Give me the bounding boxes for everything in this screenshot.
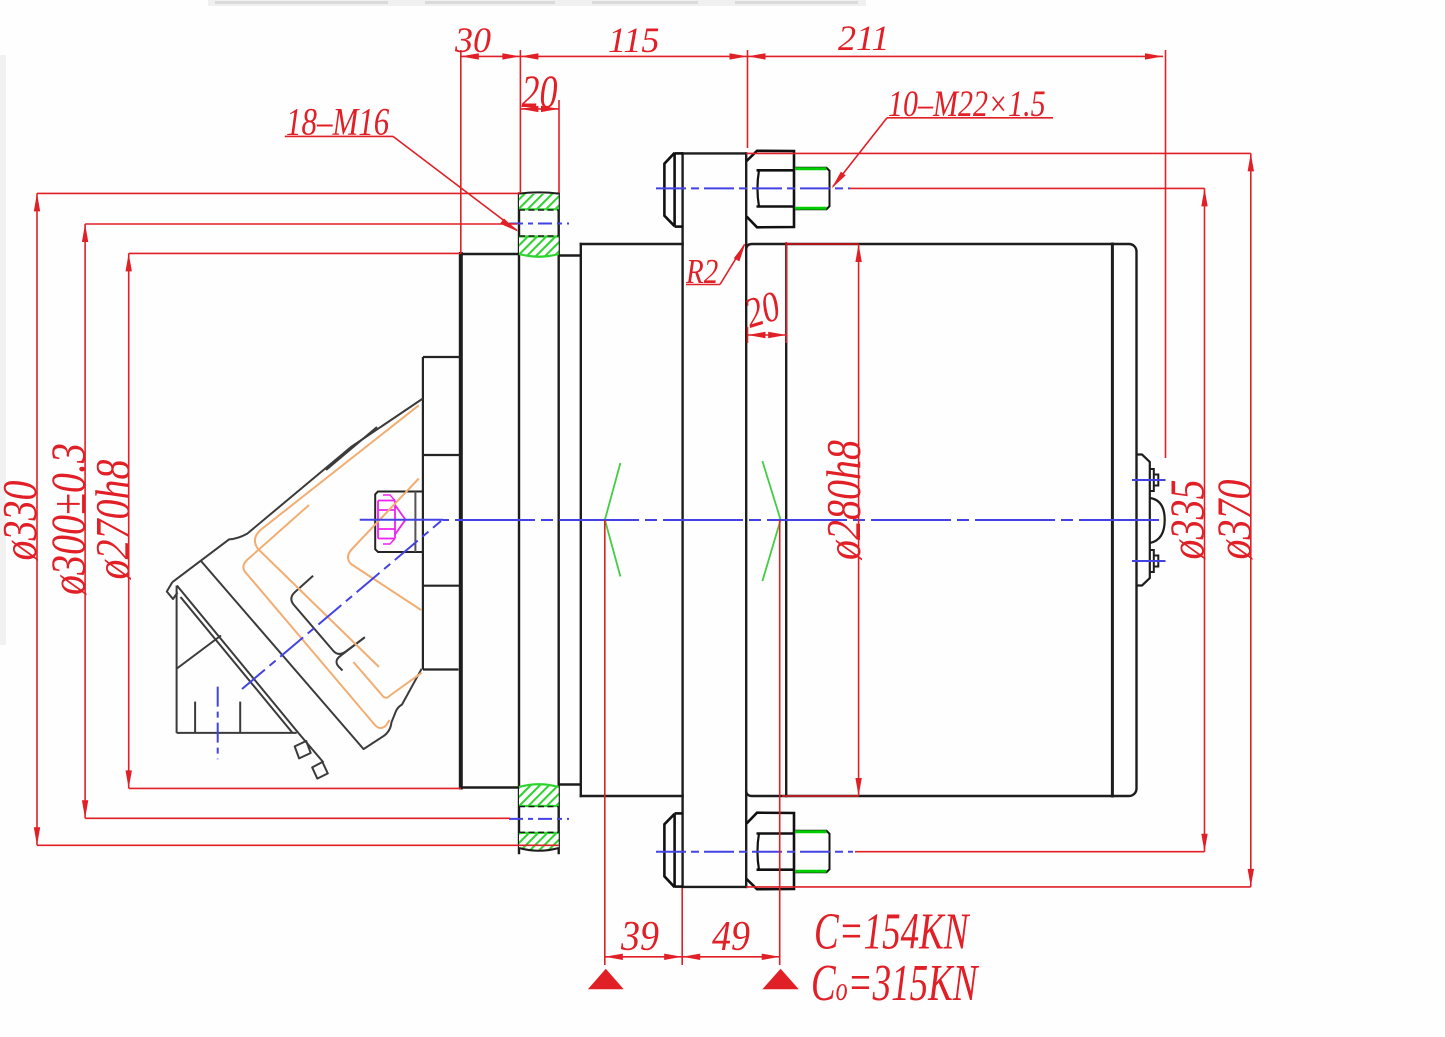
- mesh mark left: [605, 463, 621, 577]
- right dim connectors: [850, 187, 1205, 189]
- rotating flange top edge: [683, 152, 747, 154]
- mounting flange top edge: [461, 253, 519, 255]
- main axis centerline: [443, 519, 1163, 521]
- main axis centerline solid start: [360, 519, 443, 521]
- pump top outline: [172, 399, 423, 583]
- inner hook: [291, 576, 365, 654]
- threaded stud bottom bolt: [794, 831, 830, 872]
- gear housing top edge: [581, 243, 683, 245]
- bell lower edge: [201, 561, 422, 749]
- block top edge: [423, 356, 461, 358]
- svg-text:18–M16: 18–M16: [286, 100, 390, 143]
- dim line 20 top: [520, 108, 559, 110]
- threaded stud top bolt: [794, 168, 830, 209]
- datum triangle left: [588, 969, 624, 990]
- ext line x559: [558, 100, 560, 193]
- leader arrow 18-M16: [500, 219, 518, 232]
- orange duct 4 bell hairpin: [353, 662, 421, 698]
- dim 280 vertical: [858, 244, 860, 796]
- svg-text:115: 115: [608, 20, 659, 60]
- pump valve centerline: [217, 687, 219, 760]
- ext line x747: [747, 50, 749, 148]
- leader R2: [686, 284, 720, 286]
- washer boss top: [664, 153, 674, 226]
- hex head top bolt: [747, 151, 794, 228]
- left dim connectors: [37, 192, 520, 194]
- arrows 39/49: [605, 954, 623, 960]
- arrows 20 top: [520, 106, 538, 112]
- arrows top dim row: [461, 53, 479, 59]
- mounting flange left edge (thick): [459, 254, 463, 788]
- svg-text:20: 20: [522, 67, 558, 119]
- leader arrow 10-M22: [832, 172, 846, 189]
- valve block ticks: [194, 702, 196, 733]
- arrows left dims: [34, 193, 40, 211]
- rotating flange right edge: [745, 153, 747, 887]
- step ring top edge: [559, 254, 581, 256]
- svg-text:39: 39: [620, 912, 659, 959]
- svg-text:49: 49: [712, 912, 750, 959]
- cap small bolt bottom: [1150, 550, 1159, 572]
- block step 2: [423, 585, 461, 587]
- valve block left edge: [176, 586, 178, 733]
- svg-text:ø280h8: ø280h8: [816, 440, 871, 561]
- thread dashed lines bottom hole: [519, 807, 559, 833]
- bottom dims 39/49: [605, 956, 780, 958]
- valve block diagonal: [177, 636, 221, 669]
- drum / cap joint line: [1111, 244, 1114, 796]
- washer boss bottom: [664, 814, 674, 887]
- cap plate: [1137, 455, 1150, 586]
- gear housing bottom edge: [581, 795, 683, 797]
- cap bolt top centerline: [1132, 479, 1166, 481]
- orange duct 3: [243, 505, 389, 728]
- ext line x1165: [1165, 50, 1167, 458]
- cap bolt bottom centerline: [1132, 560, 1166, 562]
- magenta socket symbol: [378, 495, 406, 544]
- rotating flange bottom edge: [683, 886, 747, 888]
- bottom bolt centerline: [656, 851, 853, 853]
- top bolt centerline: [656, 187, 850, 189]
- ext line x520: [519, 50, 521, 193]
- datum triangle right: [762, 969, 798, 990]
- screw head: [375, 492, 423, 553]
- top dim line 30/115/211: [461, 55, 1163, 57]
- bottom hatch band lower: [519, 833, 559, 851]
- svg-text:211: 211: [838, 18, 889, 58]
- ext line x460: [460, 50, 462, 254]
- screw head joint line: [414, 492, 416, 553]
- cap small bolt top: [1150, 469, 1159, 491]
- bottom hole centerline: [509, 818, 569, 820]
- bottom hatch band upper with spotface arc: [519, 784, 559, 806]
- hex head bottom bolt: [747, 813, 794, 890]
- block step 1: [423, 454, 461, 456]
- swash inner parallel diagonal: [181, 597, 293, 733]
- top hole centerline: [509, 223, 569, 225]
- mesh mark right: [762, 461, 780, 581]
- cap center bump: [1150, 498, 1165, 543]
- block left edge: [422, 357, 424, 670]
- svg-text:10–M22×1.5: 10–M22×1.5: [888, 84, 1046, 125]
- top hatch band upper: [519, 194, 559, 209]
- flange hatch column left edge: [518, 194, 520, 854]
- red overlay drum top edge: [786, 243, 858, 245]
- arrows 20 flange: [748, 332, 766, 338]
- port tab 1: [295, 741, 311, 758]
- arrows 280: [855, 244, 861, 262]
- arrows right dims: [1201, 188, 1207, 206]
- top hatch band lower with spotface arc: [519, 237, 559, 257]
- svg-text:C=154KN: C=154KN: [814, 902, 971, 960]
- inner hook 2: [337, 638, 365, 671]
- step ring bottom edge: [559, 783, 581, 785]
- left dim verticals: [36, 193, 38, 845]
- swash long diagonal: [177, 586, 324, 763]
- drum face joint line: [785, 244, 787, 796]
- block bottom edge: [423, 668, 459, 670]
- thread dashed lines top hole: [519, 210, 559, 236]
- rotating flange left edge: [681, 153, 683, 887]
- leader arrow R2: [734, 243, 746, 261]
- svg-text:ø370: ø370: [1207, 480, 1262, 561]
- mounting flange bottom edge: [461, 786, 519, 788]
- orange duct 2: [348, 479, 421, 611]
- leader 10-M22: [887, 117, 1053, 119]
- svg-text:ø270h8: ø270h8: [85, 460, 140, 581]
- inner sliver near top: [326, 427, 377, 470]
- svg-text:R2: R2: [685, 251, 718, 290]
- red overlays on black edges: [786, 243, 858, 245]
- pump left notch: [167, 582, 178, 599]
- right dim verticals: [1204, 188, 1206, 851]
- drum outline with R2 fillets and rounded cap corners: [746, 244, 1136, 796]
- gear housing left edge: [580, 244, 582, 796]
- svg-text:30: 30: [454, 20, 491, 60]
- pump axis centerline: [242, 521, 441, 689]
- flange hatch column right edge: [558, 194, 560, 854]
- leader 18-M16: [285, 135, 393, 137]
- scan artifacts top edge: [208, 0, 866, 6]
- valve block bottom edge: [177, 732, 297, 734]
- dim 20 flange: [748, 334, 787, 336]
- port tab 2: [312, 762, 328, 779]
- orange duct 1: [255, 405, 419, 667]
